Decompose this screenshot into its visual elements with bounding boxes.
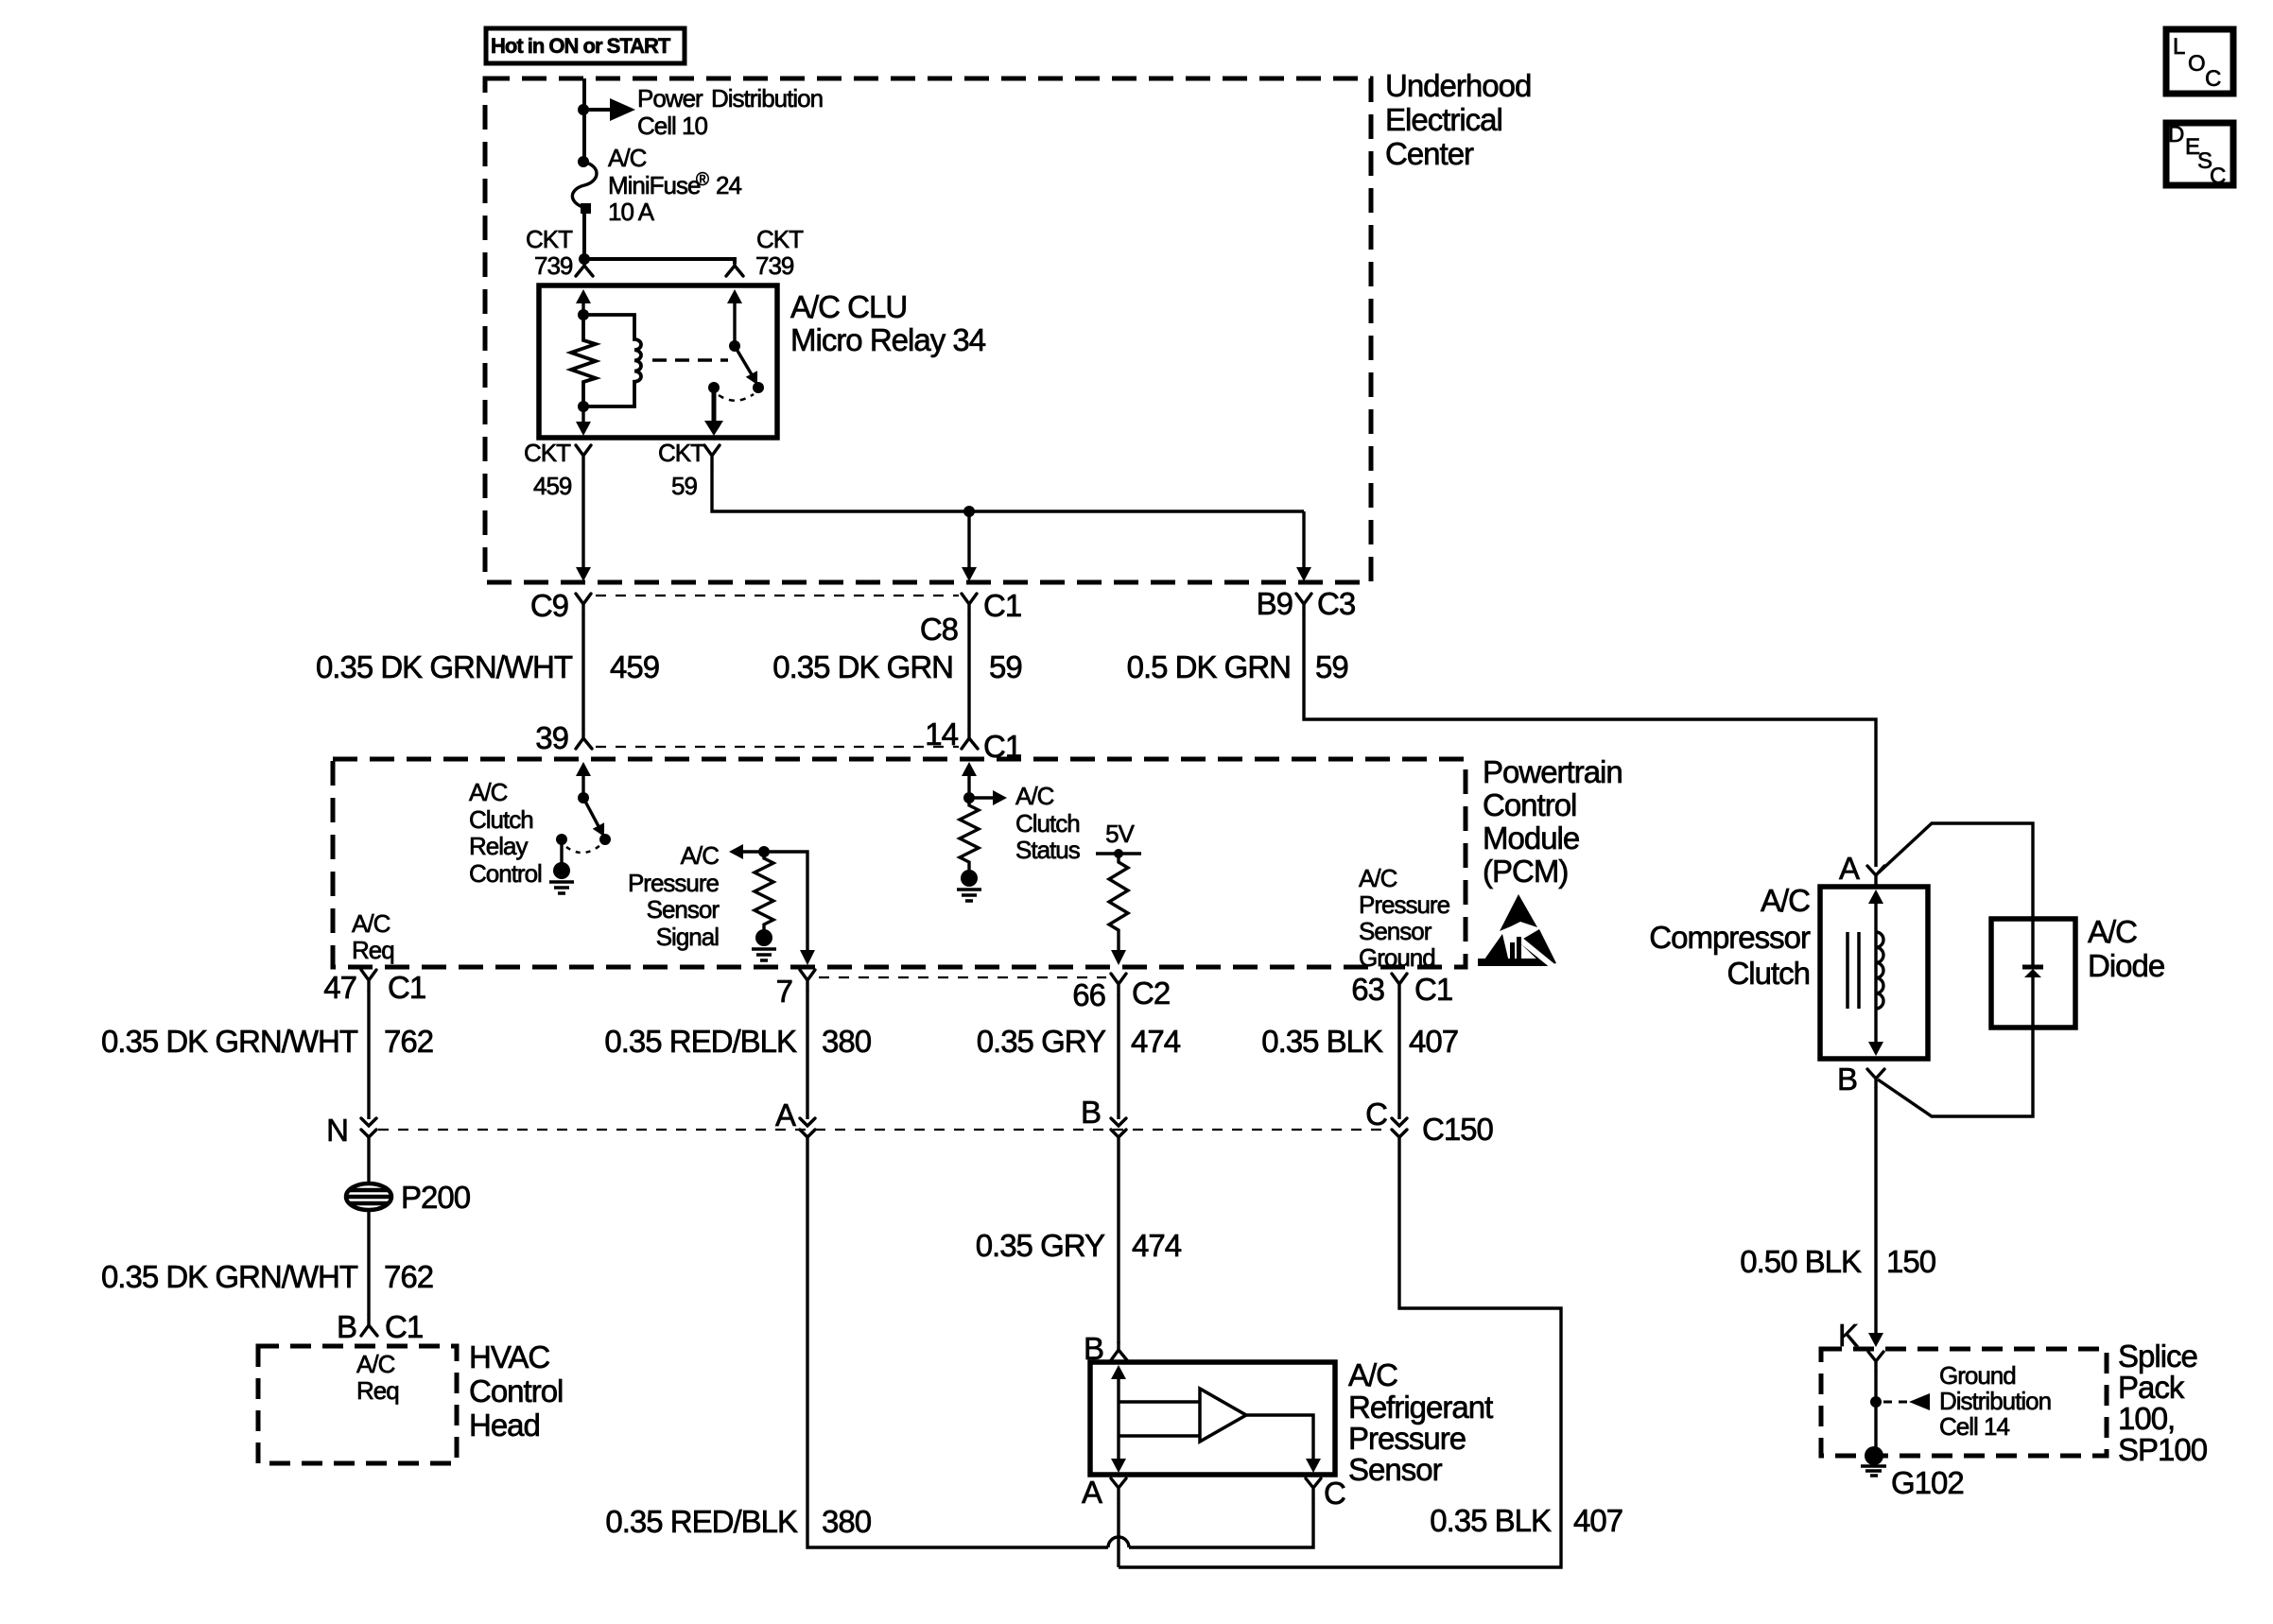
wire: compressor A to diode (diagonal + top run) xyxy=(1879,823,2033,965)
svg-text:Clutch: Clutch xyxy=(469,805,533,834)
svg-text:0.35 DK GRN: 0.35 DK GRN xyxy=(772,649,953,684)
svg-text:N: N xyxy=(326,1113,348,1148)
op-amp U1 xyxy=(1200,1389,1246,1442)
node: status tap xyxy=(963,792,975,803)
label 0.35 GRY 474 xyxy=(977,1024,1181,1059)
terminal: PCM pin 63 xyxy=(1392,974,1407,994)
terminal: HVAC pin B/C1 xyxy=(361,1315,377,1336)
resistor: signal pull network xyxy=(755,852,773,930)
svg-text:A: A xyxy=(1839,851,1860,886)
Underhood Electrical Center dashed box xyxy=(485,78,1371,582)
label 0.35 DK GRN 59 xyxy=(772,649,1021,684)
svg-text:59: 59 xyxy=(1315,649,1348,684)
connector C150 pin B xyxy=(1111,1118,1126,1137)
wire 407: PCM 63 to C150 C xyxy=(1397,994,1400,1119)
wire: CKT 59 relay to junction xyxy=(712,465,1304,511)
svg-text:0.35 DK GRN/WHT: 0.35 DK GRN/WHT xyxy=(101,1259,358,1294)
A/C Compressor Clutch label xyxy=(1649,883,1811,991)
svg-text:Refrigerant: Refrigerant xyxy=(1348,1390,1493,1425)
label 0.35 BLK 407 (lower) xyxy=(1430,1503,1622,1538)
ground: signal network xyxy=(752,929,776,960)
svg-text:Micro Relay 34: Micro Relay 34 xyxy=(790,322,986,357)
svg-text:A/C: A/C xyxy=(469,778,508,806)
connector line UEC C9-C1 (thin dashed) xyxy=(596,595,959,596)
sensor internal: supply/return rail with arrows xyxy=(1111,1365,1126,1473)
svg-text:0.35 GRY: 0.35 GRY xyxy=(977,1024,1106,1059)
node: relay coil bottom xyxy=(578,401,589,412)
sensor: A/C Refrigerant Pressure Sensor box xyxy=(1090,1362,1335,1475)
ESD sensitivity symbol xyxy=(1478,894,1562,974)
PCM internal: A/C pressure sensor signal network xyxy=(729,844,815,965)
svg-text:0.50 BLK: 0.50 BLK xyxy=(1740,1244,1862,1279)
svg-text:150: 150 xyxy=(1886,1244,1936,1279)
svg-text:10 A: 10 A xyxy=(608,198,655,226)
svg-text:Signal: Signal xyxy=(656,923,719,951)
node: SP100 splice xyxy=(1870,1396,1882,1408)
wire 59: C1 to PCM pin 14 xyxy=(967,614,970,729)
arrow to A/C Clutch Status xyxy=(969,790,1007,805)
svg-text:C: C xyxy=(2205,66,2221,92)
ground G102 xyxy=(1861,1446,1964,1500)
svg-text:Status: Status xyxy=(1015,836,1081,864)
svg-text:Electrical: Electrical xyxy=(1385,102,1502,137)
svg-text:47: 47 xyxy=(323,970,356,1005)
svg-text:7: 7 xyxy=(776,974,792,1009)
grommet P200 xyxy=(346,1180,471,1215)
svg-text:Pack: Pack xyxy=(2118,1370,2185,1405)
terminal: CKT 739 into relay (left) xyxy=(576,259,593,276)
svg-text:Center: Center xyxy=(1385,136,1474,171)
compressor clutch internal feed arrows xyxy=(1868,890,1883,1056)
svg-text:739: 739 xyxy=(534,251,573,280)
dashed arrow to Ground Distribution Cell 14 xyxy=(1883,1393,1930,1410)
node: switch output contact xyxy=(708,382,720,393)
svg-text:Diode: Diode xyxy=(2088,948,2164,983)
svg-text:5V: 5V xyxy=(1105,820,1135,848)
svg-text:24: 24 xyxy=(716,171,741,199)
label 0.5 DK GRN 59 xyxy=(1127,649,1348,684)
svg-text:474: 474 xyxy=(1131,1024,1181,1059)
svg-text:(PCM): (PCM) xyxy=(1483,854,1568,889)
wire: fuse to CKT 739 node xyxy=(582,209,586,261)
terminal: PCM pin 7 xyxy=(800,970,815,991)
svg-text:CKT: CKT xyxy=(756,225,804,253)
svg-text:Relay: Relay xyxy=(469,832,528,860)
relay: A/C CLU Micro Relay 34 box xyxy=(539,285,777,438)
svg-text:Req: Req xyxy=(352,936,394,964)
dashed travel arc xyxy=(719,394,754,401)
svg-text:407: 407 xyxy=(1573,1503,1622,1538)
Hot in ON or START box xyxy=(486,28,685,63)
HVAC Control Head label xyxy=(469,1339,563,1443)
svg-text:Underhood: Underhood xyxy=(1385,68,1531,103)
dashed actuation link coil to switch xyxy=(652,358,728,362)
terminal: sensor pin C xyxy=(1306,1478,1321,1498)
svg-text:P200: P200 xyxy=(401,1180,471,1215)
driver switch lever xyxy=(583,798,610,839)
arrow to Power Distribution Cell 10 xyxy=(583,84,823,140)
clutch plates xyxy=(1848,932,1859,1009)
svg-text:®: ® xyxy=(696,170,709,190)
svg-text:459: 459 xyxy=(533,472,572,500)
A/C Clutch Relay Control label xyxy=(469,778,542,888)
connector C150 pin A xyxy=(800,1118,815,1137)
svg-text:B9: B9 xyxy=(1257,586,1293,621)
CKT 459 / CKT 59 labels xyxy=(524,439,705,500)
relay coil feed arrow (up, inside box) xyxy=(576,289,591,315)
svg-text:C8: C8 xyxy=(920,612,958,647)
svg-text:100,: 100, xyxy=(2118,1401,2175,1436)
svg-text:59: 59 xyxy=(989,649,1022,684)
A/C Refrigerant Pressure Sensor label xyxy=(1348,1357,1493,1487)
fuse: A/C MiniFuse 24, 10 A xyxy=(572,144,741,226)
svg-text:CKT: CKT xyxy=(658,439,705,467)
svg-text:Pressure: Pressure xyxy=(628,869,720,897)
label 0.35 RED/BLK 380 (lower) xyxy=(605,1504,871,1539)
label 0.35 RED/BLK 380 xyxy=(604,1024,871,1059)
svg-text:B: B xyxy=(1081,1095,1101,1130)
svg-text:MiniFuse: MiniFuse xyxy=(608,171,701,199)
connector C3 terminal xyxy=(1296,594,1311,614)
svg-text:C2: C2 xyxy=(1132,976,1170,1011)
DESC legend box xyxy=(2166,122,2233,189)
PCM internal: A/C clutch relay control driver xyxy=(576,762,591,798)
svg-text:0.35 BLK: 0.35 BLK xyxy=(1261,1024,1383,1059)
svg-text:39: 39 xyxy=(535,720,568,755)
Splice Pack dashed box xyxy=(1821,1349,2107,1456)
label 0.50 BLK 150 xyxy=(1740,1244,1935,1279)
svg-text:C1: C1 xyxy=(385,1309,423,1344)
svg-text:59: 59 xyxy=(671,472,697,500)
svg-text:G102: G102 xyxy=(1891,1465,1964,1500)
svg-text:380: 380 xyxy=(822,1024,872,1059)
A/C Clutch Status label xyxy=(1015,782,1081,864)
svg-text:Control: Control xyxy=(469,859,542,888)
node: CKT 59 junction to C1 xyxy=(963,506,975,517)
svg-text:D: D xyxy=(2168,122,2184,147)
resistor: 5V pull-up xyxy=(1109,854,1128,951)
wire 380: C150 A down and over to sensor C (hops 407) xyxy=(807,1137,1108,1547)
resistor: clutch status xyxy=(960,798,979,870)
A/C Diode box xyxy=(1991,919,2075,1028)
hop over A-pin wire xyxy=(1108,1537,1129,1547)
relay output thick lead with arrow (down, inside box) xyxy=(704,388,723,436)
A/C Diode label xyxy=(2088,914,2164,983)
label 0.35 DK GRN/WHT 459 xyxy=(316,649,659,684)
PCM internal: 5V reference xyxy=(1096,820,1141,858)
terminal: PCM pin 14 xyxy=(962,729,978,749)
relay coil output arrow (down, inside box) xyxy=(576,406,591,436)
svg-text:Sensor: Sensor xyxy=(647,895,720,924)
Powertrain Control Module (PCM) label xyxy=(1483,754,1622,889)
connector C150 pin N xyxy=(361,1118,376,1137)
wire 459: C9 to PCM pin 39 xyxy=(581,614,584,729)
terminal: compressor pin B xyxy=(1867,1069,1884,1087)
wire 474: PCM 66 to C150 B xyxy=(1117,994,1119,1119)
svg-text:A/C: A/C xyxy=(2088,914,2137,949)
svg-text:0.35 RED/BLK: 0.35 RED/BLK xyxy=(604,1024,797,1059)
terminal: CKT 739 into relay (right) xyxy=(726,264,743,276)
node: switch pivot xyxy=(729,340,740,352)
svg-text:474: 474 xyxy=(1132,1228,1182,1263)
svg-text:A/C: A/C xyxy=(352,909,390,938)
svg-text:Ground: Ground xyxy=(1939,1361,2016,1390)
svg-text:A/C: A/C xyxy=(681,841,720,870)
wire: CKT 459 relay to UEC connector C9 xyxy=(581,465,584,568)
wire 474: C150 B to sensor B xyxy=(1117,1137,1119,1343)
label 0.35 GRY 474 (lower) xyxy=(976,1228,1182,1263)
svg-text:B: B xyxy=(337,1309,356,1344)
svg-text:Powertrain: Powertrain xyxy=(1483,754,1622,789)
svg-text:Pressure: Pressure xyxy=(1359,890,1450,919)
svg-text:Distribution: Distribution xyxy=(711,84,823,112)
relay coil winding xyxy=(583,315,641,406)
svg-text:459: 459 xyxy=(610,649,659,684)
svg-text:Head: Head xyxy=(469,1408,540,1443)
svg-text:A/C: A/C xyxy=(608,144,647,172)
diode D1 symbol xyxy=(2022,967,2043,1028)
svg-text:Sensor: Sensor xyxy=(1359,917,1432,945)
svg-text:0.35 DK GRN/WHT: 0.35 DK GRN/WHT xyxy=(316,649,573,684)
svg-text:Pressure: Pressure xyxy=(1348,1421,1466,1456)
LOC legend box xyxy=(2166,29,2233,94)
svg-text:Power: Power xyxy=(637,84,703,112)
clutch coil winding xyxy=(1876,932,1883,1009)
wire 762: PCM 47 to C150 N xyxy=(367,991,370,1119)
svg-text:0.5 DK GRN: 0.5 DK GRN xyxy=(1127,649,1291,684)
wire 380 continues to sensor C xyxy=(1129,1498,1313,1547)
HVAC Control Head dashed box xyxy=(258,1346,457,1463)
svg-text:Sensor: Sensor xyxy=(1348,1452,1443,1487)
PCM internal: A/C clutch status sense xyxy=(962,762,977,798)
connector C9 terminal xyxy=(576,594,591,614)
ground: clutch status xyxy=(957,870,981,901)
terminal: PCM pin 47 xyxy=(361,970,376,991)
svg-text:A: A xyxy=(775,1097,796,1132)
svg-text:HVAC: HVAC xyxy=(469,1339,549,1374)
svg-text:C3: C3 xyxy=(1317,586,1355,621)
svg-text:380: 380 xyxy=(822,1504,872,1539)
terminal: compressor pin A xyxy=(1867,866,1884,885)
svg-text:A/C: A/C xyxy=(1761,883,1810,918)
connector line PCM 7-66 (thin dashed) xyxy=(819,976,1106,978)
svg-text:Control: Control xyxy=(1483,787,1576,822)
svg-text:C150: C150 xyxy=(1422,1112,1494,1147)
svg-text:Control: Control xyxy=(469,1373,563,1408)
PCM dashed box xyxy=(333,759,1466,967)
label 0.35 DK GRN/WHT 762 xyxy=(101,1024,433,1059)
wire 762: C150 N to P200 xyxy=(367,1137,370,1185)
Underhood Electrical Center label xyxy=(1385,68,1531,171)
svg-text:A/C: A/C xyxy=(356,1350,395,1378)
svg-text:C1: C1 xyxy=(388,970,425,1005)
terminal: CKT 459 out of relay xyxy=(576,445,591,465)
wire 0.5 DK GRN 59: C3 to A/C compressor clutch A xyxy=(1304,614,1876,867)
wire 150: compressor B to splice pack K xyxy=(1874,1087,1877,1334)
svg-text:Req: Req xyxy=(356,1376,399,1405)
node: relay coil top xyxy=(578,309,589,320)
svg-text:CKT: CKT xyxy=(526,225,573,253)
svg-text:CKT: CKT xyxy=(524,439,571,467)
connector C1 terminal (UEC) xyxy=(962,594,977,614)
wire: splice bus to G102 xyxy=(1874,1371,1877,1452)
terminal: PCM pin 66 xyxy=(1111,974,1126,994)
terminal: PCM pin 39 xyxy=(576,729,592,749)
wire 407: C150 C over and down to sensor A xyxy=(1119,1137,1561,1567)
svg-text:Ground: Ground xyxy=(1359,943,1435,972)
node: driver switch top xyxy=(578,792,589,803)
wire: compressor B to diode (diagonal + bottom run) xyxy=(1878,1028,2033,1116)
svg-text:0.35 RED/BLK: 0.35 RED/BLK xyxy=(605,1504,798,1539)
label 0.35 BLK 407 xyxy=(1261,1024,1458,1059)
svg-text:0.35 DK GRN/WHT: 0.35 DK GRN/WHT xyxy=(101,1024,358,1059)
svg-text:A: A xyxy=(1082,1475,1102,1510)
svg-text:C1: C1 xyxy=(1414,972,1452,1007)
A/C Compressor Clutch box xyxy=(1820,887,1928,1059)
svg-text:Compressor: Compressor xyxy=(1649,920,1811,955)
A/C CLU Micro Relay 34 label xyxy=(790,289,986,357)
svg-text:Cell 10: Cell 10 xyxy=(637,112,707,140)
svg-text:66: 66 xyxy=(1072,977,1105,1012)
Ground Distribution Cell 14 label xyxy=(1939,1361,2051,1441)
svg-text:0.35 GRY: 0.35 GRY xyxy=(976,1228,1105,1263)
terminal: sensor pin A xyxy=(1111,1478,1126,1498)
ground: relay control driver xyxy=(549,839,574,893)
connector line PCM 39-14 (thin dashed) xyxy=(596,746,959,748)
svg-text:B: B xyxy=(1837,1062,1857,1097)
svg-text:SP100: SP100 xyxy=(2118,1432,2208,1467)
svg-text:Module: Module xyxy=(1483,821,1579,855)
A/C Pressure Sensor Signal label xyxy=(628,841,720,951)
dashed travel arc xyxy=(566,845,600,853)
switch lever with arrowhead xyxy=(735,346,763,388)
resistor inside relay xyxy=(571,315,596,406)
terminal: splice pack K xyxy=(1868,1352,1883,1371)
node: power distribution tap junction xyxy=(578,104,589,115)
CKT 739 labels xyxy=(526,225,804,280)
svg-text:O: O xyxy=(2188,51,2205,77)
arrow: 5V out pin 66 xyxy=(1111,950,1126,965)
svg-text:63: 63 xyxy=(1351,972,1384,1007)
svg-text:Cell 14: Cell 14 xyxy=(1939,1412,2009,1441)
wire: CKT 739 branch to relay switch pin xyxy=(584,259,735,264)
svg-text:Clutch: Clutch xyxy=(1015,809,1080,838)
svg-text:C: C xyxy=(2210,164,2226,189)
svg-text:L: L xyxy=(2173,34,2185,60)
wire: CKT 59 down to UEC connector C3 xyxy=(1302,511,1305,568)
node: signal tap xyxy=(758,846,770,857)
svg-text:A/C: A/C xyxy=(1348,1357,1397,1392)
svg-text:739: 739 xyxy=(755,251,794,280)
wire: sensor A lead down to 407 xyxy=(1117,1498,1119,1567)
Splice Pack 100, SP100 label xyxy=(2118,1339,2208,1467)
svg-text:A/C CLU: A/C CLU xyxy=(790,289,907,324)
node: switch NO contact xyxy=(753,382,764,393)
wire 762: P200 to HVAC B xyxy=(367,1209,370,1315)
A/C Req label (PCM pin 47) xyxy=(352,909,394,964)
svg-text:Distribution: Distribution xyxy=(1939,1387,2051,1415)
node: CKT 739 split xyxy=(579,253,590,265)
svg-text:Hot in ON or START: Hot in ON or START xyxy=(491,34,671,58)
A/C Req label (HVAC) xyxy=(356,1350,399,1405)
terminal: sensor pin B xyxy=(1111,1342,1127,1360)
svg-text:C: C xyxy=(1324,1476,1345,1511)
wire: ignition feed from Hot bus xyxy=(582,78,586,161)
node: driver contact left (to ground) xyxy=(556,834,567,845)
A/C Pressure Sensor Ground label xyxy=(1359,864,1450,972)
svg-text:Splice: Splice xyxy=(2118,1339,2197,1373)
svg-text:Clutch: Clutch xyxy=(1726,956,1810,991)
sensor internal: op-amp inputs xyxy=(1119,1402,1200,1436)
wire: junction down to UEC connector C1 xyxy=(967,511,970,568)
connector C150 pin C xyxy=(1392,1118,1407,1137)
svg-text:762: 762 xyxy=(384,1024,433,1059)
label 0.35 DK GRN/WHT 762 (lower) xyxy=(101,1259,433,1294)
sensor internal: output to pin C xyxy=(1246,1415,1321,1473)
wire 380: PCM 7 to C150 A xyxy=(806,991,808,1119)
svg-text:762: 762 xyxy=(384,1259,433,1294)
svg-text:C9: C9 xyxy=(530,588,568,623)
terminal: CKT 59 out of relay xyxy=(704,445,720,465)
svg-text:0.35 BLK: 0.35 BLK xyxy=(1430,1503,1552,1538)
svg-text:C: C xyxy=(1365,1097,1387,1132)
svg-text:14: 14 xyxy=(925,717,958,752)
relay switch: input from CKT 739 xyxy=(727,289,742,346)
node: driver contact right xyxy=(599,834,611,845)
svg-text:A/C: A/C xyxy=(1359,864,1397,892)
svg-text:C1: C1 xyxy=(983,588,1021,623)
connector C150 line (thin dashed) xyxy=(378,1129,1387,1131)
svg-text:A/C: A/C xyxy=(1015,782,1054,810)
svg-text:407: 407 xyxy=(1409,1024,1458,1059)
